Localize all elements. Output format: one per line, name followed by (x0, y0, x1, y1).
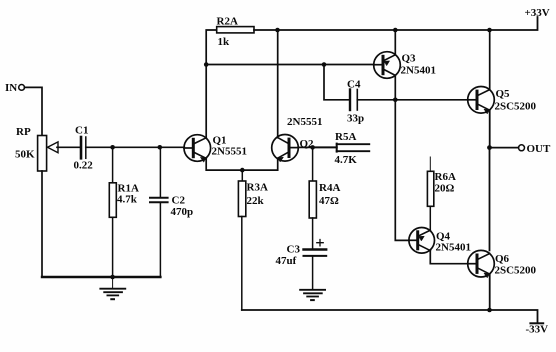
resistor R3A (238, 170, 268, 310)
wire Q5 emitter down to OUT node (489, 110, 491, 147)
svg-text:R5A: R5A (335, 131, 356, 143)
wire bottom -33V rail (242, 310, 538, 323)
wire Q1 collector node to Q3 base (206, 64, 374, 66)
node Q2 collector at rail (275, 28, 280, 33)
wire node down to Q4 base (395, 100, 409, 241)
node C4 tap (322, 62, 327, 67)
svg-text:22k: 22k (247, 195, 265, 207)
wire OUT node down to Q6 collector (489, 148, 491, 251)
wire top +33V rail (254, 17, 538, 30)
svg-text:2N5551: 2N5551 (212, 146, 247, 158)
transistor Q1 2N5551 (184, 135, 247, 163)
transistor Q6 2SC5200 (468, 250, 537, 277)
wire node to R5A (313, 146, 337, 148)
svg-text:2N5401: 2N5401 (436, 242, 471, 254)
potentiometer RP (15, 126, 58, 171)
wire C4 branch down (324, 65, 349, 100)
ground (left) (100, 277, 125, 299)
svg-text:OUT: OUT (527, 143, 552, 155)
wire Q4 collector to Q6 base (430, 251, 467, 264)
svg-text:RP: RP (16, 126, 31, 138)
wire Q3 emitter up to rail (394, 30, 396, 55)
svg-text:470p: 470p (171, 206, 194, 218)
node OUT junction (487, 145, 492, 150)
svg-text:2SC5200: 2SC5200 (495, 265, 537, 277)
ground (C3) (300, 290, 325, 300)
capacitor C4 (347, 79, 364, 125)
svg-text:R4A: R4A (319, 182, 340, 194)
transistor Q3 2N5401 (374, 52, 436, 79)
node Q2 base / R4A / R5A junction (310, 145, 315, 150)
transistor Q4 2N5401 (409, 228, 471, 254)
svg-text:4.7k: 4.7k (117, 194, 138, 206)
wire node to Q5 base (395, 99, 467, 101)
svg-text:R3A: R3A (247, 182, 268, 194)
wire IN to potentiometer top (25, 87, 43, 135)
resistor R6A (427, 157, 456, 230)
node Q3 collector / C4 / Q5 base (393, 98, 398, 103)
wire Q6 emitter to bottom rail (489, 274, 491, 310)
node R1A tap (110, 145, 115, 150)
node R3A tail tap (240, 168, 245, 173)
transistor Q5 2SC5200 (468, 87, 537, 114)
node Q3 emitter at rail (393, 28, 398, 33)
svg-text:C4: C4 (347, 79, 361, 91)
resistor R2A (217, 16, 255, 49)
svg-text:33p: 33p (347, 113, 364, 125)
svg-text:0.22: 0.22 (74, 160, 94, 172)
wire Q2 base to node (298, 146, 312, 148)
svg-text:R2A: R2A (217, 16, 238, 28)
wire C1 to Q1 base (86, 146, 185, 148)
wire left ground rail (42, 276, 160, 278)
svg-text:Q3: Q3 (402, 53, 417, 65)
node C2 tap (158, 145, 163, 150)
svg-text:2N5401: 2N5401 (401, 65, 436, 77)
wire C4 to Q3 collector node (357, 99, 395, 101)
svg-text:47Ω: 47Ω (319, 195, 339, 207)
svg-text:C3: C3 (287, 244, 301, 256)
svg-text:C2: C2 (172, 195, 186, 207)
wire Q3 collector down (394, 75, 396, 99)
svg-text:1k: 1k (218, 36, 231, 48)
transistor Q2 2N5551 (272, 116, 323, 162)
svg-text:C1: C1 (75, 125, 88, 137)
node Q1 collector / Q3 base wire (204, 62, 209, 67)
resistor R5A (335, 131, 370, 166)
wire emitter rail Q1-Q2 (206, 158, 278, 170)
output terminal OUT (490, 143, 552, 155)
svg-text:IN: IN (5, 82, 17, 94)
resistor R4A (309, 147, 340, 248)
svg-text:50K: 50K (15, 149, 35, 161)
svg-text:20Ω: 20Ω (435, 183, 455, 195)
svg-text:47uf: 47uf (276, 255, 297, 267)
wire C3 to ground (312, 256, 314, 290)
svg-text:+33V: +33V (525, 7, 550, 19)
svg-text:-33V: -33V (526, 324, 549, 336)
svg-text:R6A: R6A (435, 171, 456, 183)
node Q6 emitter at bottom rail (487, 308, 492, 313)
resistor R1A (109, 147, 139, 277)
-33V supply terminal bar (530, 322, 543, 324)
svg-text:Q5: Q5 (496, 88, 511, 100)
wire potentiometer bottom to ground rail (41, 171, 43, 277)
capacitor C1 (74, 125, 94, 172)
svg-text:2N5551: 2N5551 (287, 116, 322, 128)
wire wiper to C1 (57, 146, 80, 148)
svg-text:Q6: Q6 (495, 253, 510, 265)
svg-text:2SC5200: 2SC5200 (495, 101, 537, 113)
wire Q5 collector up to rail (489, 30, 491, 90)
wire Q2 collector up to rail (277, 30, 279, 138)
input terminal IN (5, 82, 25, 94)
node Q5 collector at rail (487, 28, 492, 33)
capacitor C3 electrolytic (276, 240, 327, 268)
wire Q1 collector up to R2A left (206, 30, 217, 138)
capacitor C2 (150, 147, 193, 277)
svg-text:4.7K: 4.7K (335, 154, 358, 166)
node R1A at ground rail (110, 275, 115, 280)
